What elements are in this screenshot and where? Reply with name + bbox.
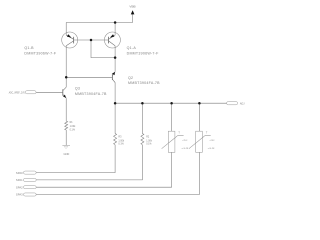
svg-text:SPA3: SPA3	[16, 193, 23, 197]
svg-text:+/-0.2K: +/-0.2K	[208, 148, 216, 150]
svg-text:R3: R3	[118, 137, 122, 139]
wire RT1 to port wire 3	[36, 152, 172, 187]
label Q3	[75, 86, 107, 96]
label Q2	[128, 76, 160, 85]
label Q1-A	[127, 46, 159, 56]
label R2	[146, 137, 153, 146]
label R3	[118, 137, 125, 146]
svg-text:Q3: Q3	[75, 86, 80, 90]
ground	[62, 145, 70, 156]
label R1	[70, 122, 77, 131]
power VBB arrow	[131, 10, 135, 14]
wire Q2 collector down	[114, 83, 116, 134]
wire RT2 to port wire 4	[36, 152, 199, 194]
svg-text:T: T	[178, 132, 180, 134]
svg-text:GND: GND	[64, 152, 70, 156]
junction node rail / RT2	[198, 102, 201, 105]
transistor Q1-A	[104, 32, 120, 48]
svg-text:+/-0.2K: +/-0.2K	[181, 148, 189, 150]
port ADC_VREF_2V5	[9, 91, 36, 95]
svg-text:0.1%: 0.1%	[146, 143, 151, 145]
wire Q3 emitter to R1	[65, 98, 67, 121]
wire Q2 base	[66, 76, 112, 78]
svg-text:Q1-B: Q1-B	[24, 46, 34, 50]
label Q1-B	[24, 46, 56, 56]
junction node rail / RT1	[170, 102, 173, 105]
svg-text:ADC_VREF_2V5: ADC_VREF_2V5	[9, 91, 25, 95]
wire R3 to port wire 1	[36, 145, 115, 173]
wire R2 top lead	[141, 103, 143, 133]
label RT2 values	[208, 140, 216, 150]
svg-text:+25C: +25C	[182, 140, 188, 142]
svg-text:DMMT3906W-7-F: DMMT3906W-7-F	[24, 52, 56, 56]
svg-text:1.00k: 1.00k	[146, 140, 153, 142]
svg-text:Q1-A: Q1-A	[127, 46, 137, 50]
junction node Q1-A collector / Q2	[114, 56, 117, 59]
wire VBB drop	[132, 14, 134, 23]
svg-text:VBB: VBB	[129, 4, 135, 8]
transistor Q3	[63, 87, 66, 98]
svg-text:R1: R1	[70, 122, 74, 124]
port ADJ	[227, 102, 246, 106]
thermistor RT1	[162, 131, 184, 152]
resistor R3	[114, 134, 117, 145]
wire Q1-A collector to Q2	[114, 46, 116, 72]
wire Q1-B emitter lead	[65, 23, 67, 36]
wire shared bases	[78, 39, 105, 41]
svg-text:MMBT3904FA-7B: MMBT3904FA-7B	[75, 92, 107, 96]
svg-text:Q2: Q2	[128, 76, 133, 80]
svg-text:SPA0: SPA0	[16, 171, 23, 175]
resistor R2	[141, 134, 144, 145]
wire Q1-A emitter lead	[114, 23, 116, 36]
svg-text:SPA2: SPA2	[16, 185, 23, 189]
wire Q3 base from port	[36, 91, 63, 93]
port SENS1	[16, 178, 36, 182]
port SENS3	[16, 193, 36, 197]
resistor R1	[65, 121, 68, 130]
junction node rail / R3	[114, 102, 117, 105]
port SENS0	[16, 171, 36, 175]
junction node rail/Q1-A emitter	[114, 21, 117, 24]
junction node Q1-B collector / Q2 base / Q3	[65, 76, 68, 79]
wire R1 to GND	[65, 130, 67, 145]
svg-text:MMBT3904FA-7B: MMBT3904FA-7B	[128, 81, 160, 85]
svg-text:0.1%: 0.1%	[118, 143, 123, 145]
wire top supply rail	[66, 22, 133, 24]
thermistor RT2	[189, 131, 211, 152]
svg-text:0.1%: 0.1%	[70, 129, 75, 131]
svg-text:1.00k: 1.00k	[118, 140, 125, 142]
transistor Q1-B	[62, 32, 78, 48]
svg-text:R2: R2	[146, 137, 150, 139]
svg-text:T: T	[206, 132, 208, 134]
svg-text:+25C: +25C	[209, 140, 215, 142]
wire lower rail	[115, 102, 227, 104]
port SENS2	[16, 185, 36, 189]
junction node bases	[90, 39, 93, 42]
junction node rail / R2	[141, 102, 144, 105]
wire Q1-B collector down to Q3	[65, 46, 67, 87]
wire R2 to port wire 2	[36, 145, 142, 180]
wire bases to node	[91, 40, 115, 58]
transistor Q2	[112, 72, 115, 83]
label RT1 values	[181, 140, 189, 150]
svg-text:ADJ: ADJ	[240, 102, 245, 106]
svg-text:SPA1: SPA1	[16, 178, 23, 182]
wire RT2 top lead	[198, 103, 200, 131]
wire RT1 top lead	[171, 103, 173, 131]
svg-text:1.00k: 1.00k	[70, 126, 77, 128]
svg-text:DMMT3906W-7-F: DMMT3906W-7-F	[127, 52, 159, 56]
